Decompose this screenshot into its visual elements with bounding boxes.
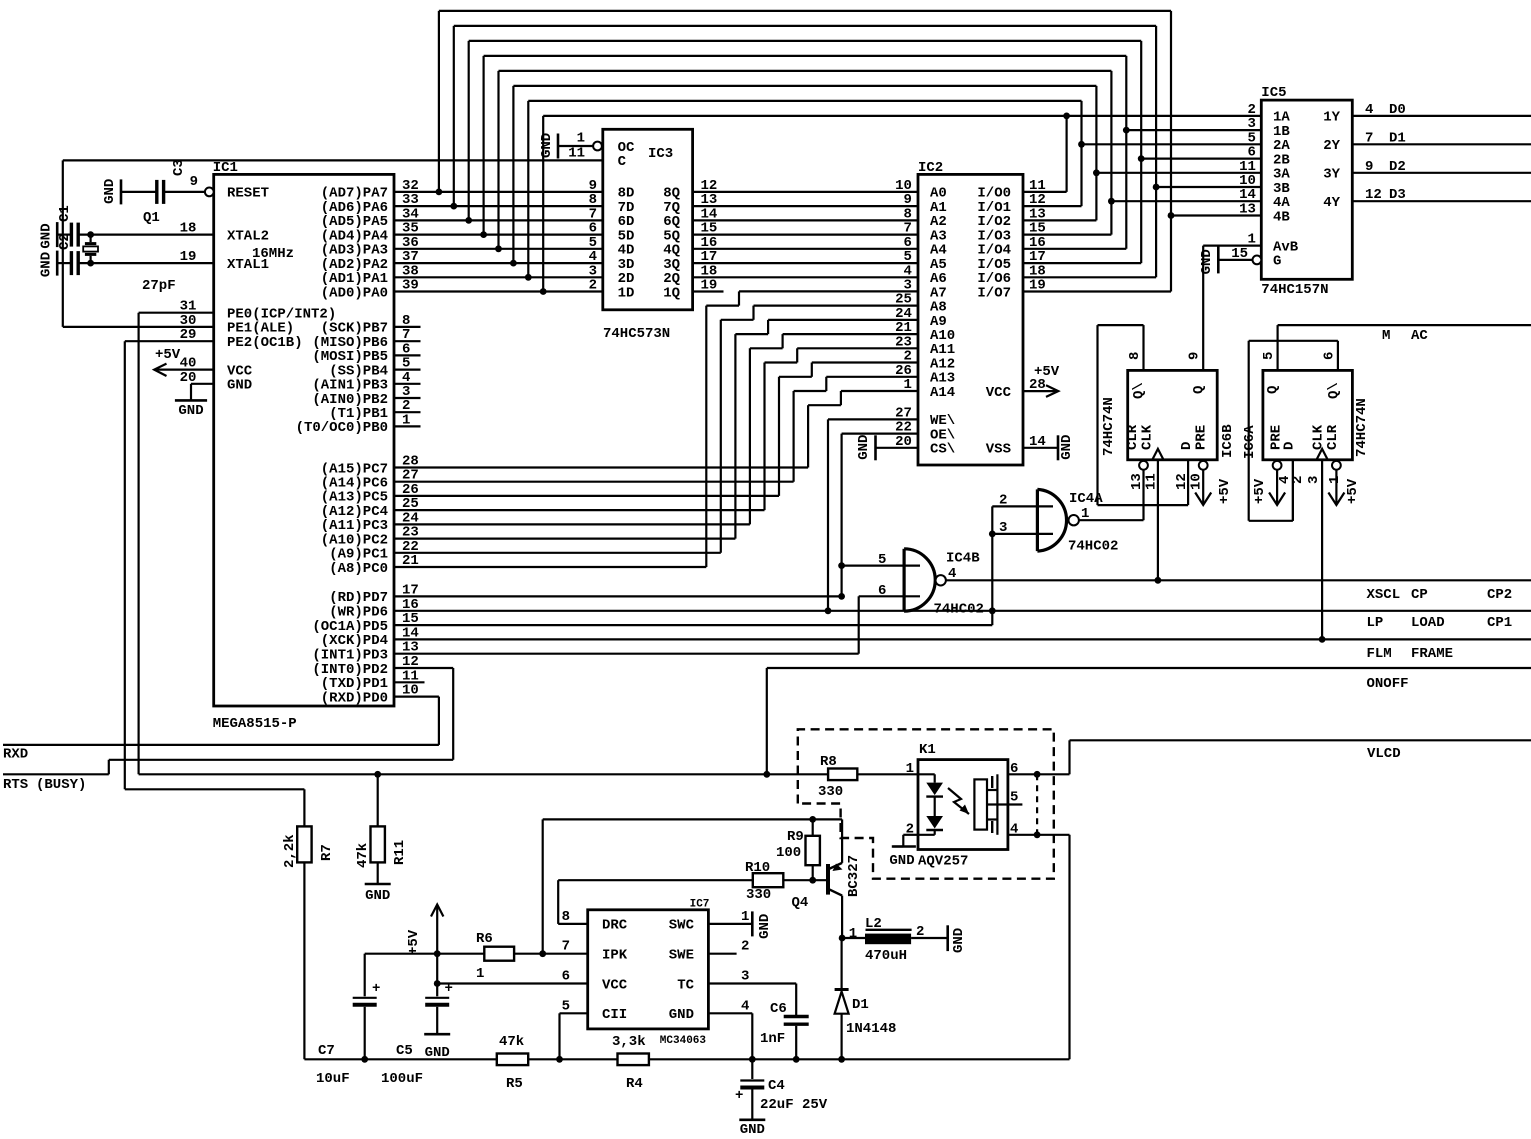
svg-text:Q: Q [1265, 386, 1281, 394]
svg-text:C7: C7 [318, 1043, 335, 1059]
svg-text:CLR: CLR [1125, 424, 1141, 450]
svg-text:D1: D1 [852, 997, 869, 1013]
svg-text:6: 6 [562, 969, 570, 985]
svg-text:9: 9 [190, 174, 198, 190]
svg-text:FRAME: FRAME [1411, 646, 1453, 662]
svg-text:12: 12 [1174, 473, 1190, 490]
svg-text:9: 9 [1365, 159, 1373, 175]
svg-text:11: 11 [1144, 473, 1160, 490]
svg-text:4: 4 [1365, 102, 1373, 118]
svg-text:SWC: SWC [669, 918, 695, 934]
svg-text:GND: GND [178, 403, 203, 419]
svg-text:1: 1 [577, 131, 585, 147]
svg-text:3Y: 3Y [1323, 167, 1340, 183]
svg-text:(T0/OC0)PB0: (T0/OC0)PB0 [296, 420, 388, 436]
svg-text:2Y: 2Y [1323, 138, 1340, 154]
svg-text:RTS: RTS [3, 777, 28, 793]
svg-text:IC5: IC5 [1261, 85, 1286, 101]
svg-text:2: 2 [916, 924, 924, 940]
svg-text:1: 1 [1081, 506, 1089, 522]
svg-text:(A8)PC0: (A8)PC0 [329, 561, 388, 577]
svg-text:5: 5 [1261, 352, 1277, 360]
svg-text:BC327: BC327 [846, 855, 862, 897]
svg-text:27pF: 27pF [142, 278, 176, 294]
svg-text:1: 1 [1247, 232, 1255, 248]
svg-text:Q1: Q1 [143, 210, 160, 226]
svg-text:8: 8 [1127, 352, 1143, 360]
svg-text:5: 5 [562, 998, 570, 1014]
svg-text:ONOFF: ONOFF [1367, 676, 1409, 692]
svg-text:R5: R5 [506, 1076, 523, 1092]
svg-text:D3: D3 [1389, 187, 1406, 203]
svg-text:330: 330 [746, 887, 771, 903]
svg-text:+5V: +5V [1252, 478, 1268, 504]
svg-text:C6: C6 [770, 1001, 787, 1017]
svg-text:SWE: SWE [669, 948, 694, 964]
svg-text:74HC02: 74HC02 [934, 602, 984, 618]
svg-text:+5V: +5V [1217, 478, 1233, 504]
svg-text:R11: R11 [392, 840, 408, 865]
svg-text:4Y: 4Y [1323, 195, 1340, 211]
svg-text:1: 1 [741, 909, 749, 925]
svg-text:A14: A14 [930, 385, 955, 401]
svg-text:CP2: CP2 [1487, 587, 1512, 603]
svg-text:5: 5 [1010, 790, 1018, 806]
svg-text:D0: D0 [1389, 102, 1406, 118]
svg-text:XTAL1: XTAL1 [227, 257, 269, 273]
svg-text:MEGA8515-P: MEGA8515-P [213, 716, 297, 732]
svg-text:VCC: VCC [602, 977, 628, 993]
svg-text:IC6A: IC6A [1242, 425, 1258, 459]
svg-text:CLK: CLK [1140, 424, 1156, 450]
svg-text:100uF: 100uF [381, 1071, 423, 1087]
svg-text:1: 1 [849, 926, 857, 942]
svg-text:M: M [1382, 328, 1390, 344]
svg-text:(BUSY): (BUSY) [36, 777, 86, 793]
svg-text:C1: C1 [57, 205, 73, 222]
svg-text:2: 2 [741, 939, 749, 955]
svg-text:D2: D2 [1389, 159, 1406, 175]
svg-text:6: 6 [878, 583, 886, 599]
svg-text:R8: R8 [820, 754, 837, 770]
svg-text:D1: D1 [1389, 130, 1406, 146]
svg-text:CLR: CLR [1325, 424, 1341, 450]
svg-text:4: 4 [741, 998, 749, 1014]
svg-text:74HC573N: 74HC573N [603, 326, 670, 342]
svg-text:GND: GND [39, 223, 55, 248]
svg-text:GND: GND [365, 888, 390, 904]
svg-text:VLCD: VLCD [1367, 746, 1401, 762]
svg-text:G: G [1273, 254, 1281, 270]
svg-text:2,2k: 2,2k [282, 834, 298, 868]
svg-text:DRC: DRC [602, 918, 628, 934]
svg-text:1: 1 [1327, 476, 1343, 484]
svg-text:XSCL: XSCL [1367, 587, 1401, 603]
svg-text:+5V: +5V [1345, 478, 1361, 504]
svg-text:22uF 25V: 22uF 25V [760, 1097, 828, 1113]
svg-text:C4: C4 [768, 1078, 785, 1094]
svg-text:19: 19 [180, 249, 197, 265]
svg-text:GND: GND [669, 1007, 694, 1023]
svg-text:2: 2 [589, 278, 597, 294]
svg-text:MC34063: MC34063 [660, 1035, 707, 1047]
svg-text:CP: CP [1411, 587, 1428, 603]
svg-text:IC2: IC2 [918, 160, 943, 176]
svg-text:12: 12 [1365, 187, 1382, 203]
svg-text:+5V: +5V [155, 347, 181, 363]
svg-text:2: 2 [999, 493, 1007, 509]
svg-text:IC7: IC7 [690, 899, 710, 911]
svg-text:4: 4 [948, 566, 956, 582]
svg-text:CII: CII [602, 1007, 627, 1023]
svg-text:D: D [1282, 442, 1298, 450]
svg-text:(AD0)PA0: (AD0)PA0 [321, 285, 388, 301]
svg-text:GND: GND [740, 1122, 765, 1138]
svg-text:GND: GND [102, 179, 118, 204]
svg-text:8: 8 [562, 909, 570, 925]
svg-text:74HC02: 74HC02 [1068, 539, 1118, 555]
svg-text:RESET: RESET [227, 186, 269, 202]
svg-text:13: 13 [1239, 202, 1256, 218]
svg-text:PRE: PRE [1194, 425, 1210, 450]
svg-text:IC6B: IC6B [1220, 424, 1236, 458]
svg-text:C3: C3 [171, 159, 187, 176]
svg-text:470uH: 470uH [865, 948, 907, 964]
svg-text:9: 9 [1187, 352, 1203, 360]
svg-text:LOAD: LOAD [1411, 615, 1445, 631]
svg-text:1N4148: 1N4148 [846, 1021, 896, 1037]
svg-text:13: 13 [1129, 473, 1145, 490]
svg-text:L2: L2 [865, 916, 882, 932]
svg-text:+: + [372, 981, 380, 997]
svg-text:3,3k: 3,3k [612, 1034, 646, 1050]
svg-text:GND: GND [951, 928, 967, 953]
svg-text:18: 18 [180, 221, 197, 237]
svg-text:GND: GND [1199, 249, 1215, 274]
svg-text:GND: GND [856, 435, 872, 460]
svg-text:AC: AC [1411, 328, 1428, 344]
svg-text:(RXD)PD0: (RXD)PD0 [321, 690, 388, 706]
svg-text:+5V: +5V [406, 929, 422, 955]
svg-text:2: 2 [1290, 476, 1306, 484]
svg-text:4B: 4B [1273, 209, 1290, 225]
svg-text:IPK: IPK [602, 948, 628, 964]
svg-text:74HC74N: 74HC74N [1101, 397, 1117, 456]
svg-text:11: 11 [568, 145, 585, 161]
svg-text:Q\: Q\ [1326, 382, 1342, 399]
svg-text:GND: GND [1059, 435, 1075, 460]
svg-text:3: 3 [741, 969, 749, 985]
svg-text:7: 7 [1365, 130, 1373, 146]
svg-text:C5: C5 [396, 1043, 413, 1059]
svg-text:6: 6 [1321, 352, 1337, 360]
svg-text:AQV257: AQV257 [918, 854, 968, 870]
svg-text:LP: LP [1367, 615, 1384, 631]
svg-text:Q4: Q4 [792, 895, 809, 911]
svg-text:5: 5 [878, 552, 886, 568]
svg-text:47k: 47k [499, 1034, 524, 1050]
svg-text:FLM: FLM [1367, 646, 1392, 662]
svg-text:IC1: IC1 [213, 160, 238, 176]
svg-text:19: 19 [1029, 278, 1046, 294]
svg-text:C: C [618, 154, 627, 170]
svg-text:74HC74N: 74HC74N [1354, 398, 1370, 457]
svg-text:RXD: RXD [3, 747, 28, 763]
svg-text:Q\: Q\ [1131, 382, 1147, 399]
svg-text:14: 14 [1029, 434, 1046, 450]
svg-text:R4: R4 [626, 1076, 643, 1092]
svg-text:R6: R6 [476, 931, 493, 947]
svg-text:1D: 1D [618, 285, 635, 301]
svg-text:CS\: CS\ [930, 442, 955, 458]
svg-text:GND: GND [539, 133, 555, 158]
svg-text:3: 3 [1306, 476, 1322, 484]
svg-text:1nF: 1nF [760, 1031, 785, 1047]
svg-text:IC4B: IC4B [946, 551, 980, 567]
svg-text:R9: R9 [787, 829, 804, 845]
svg-text:100: 100 [776, 845, 801, 861]
svg-text:10uF: 10uF [316, 1071, 350, 1087]
svg-text:3: 3 [999, 520, 1007, 536]
svg-text:GND: GND [757, 914, 773, 939]
svg-text:I/O7: I/O7 [977, 285, 1011, 301]
svg-text:74HC157N: 74HC157N [1261, 282, 1328, 298]
svg-text:Q: Q [1191, 386, 1207, 394]
svg-text:R10: R10 [745, 860, 770, 876]
svg-text:IC3: IC3 [648, 146, 673, 162]
svg-text:XTAL2: XTAL2 [227, 228, 269, 244]
svg-text:VCC: VCC [986, 385, 1012, 401]
svg-text:1Q: 1Q [663, 285, 680, 301]
svg-text:TC: TC [677, 977, 694, 993]
svg-text:+: + [735, 1088, 743, 1104]
svg-text:CP1: CP1 [1487, 615, 1512, 631]
svg-text:+5V: +5V [1034, 364, 1060, 380]
svg-text:R7: R7 [319, 844, 335, 861]
svg-text:GND: GND [227, 378, 252, 394]
svg-text:GND: GND [425, 1045, 450, 1061]
svg-text:C2: C2 [57, 233, 73, 250]
svg-text:1: 1 [476, 966, 484, 982]
svg-text:1: 1 [402, 412, 410, 428]
svg-text:VSS: VSS [986, 442, 1011, 458]
svg-text:1Y: 1Y [1323, 110, 1340, 126]
svg-text:GND: GND [39, 252, 55, 277]
svg-text:K1: K1 [919, 742, 936, 758]
svg-text:47k: 47k [355, 843, 371, 868]
svg-text:7: 7 [562, 939, 570, 955]
svg-text:330: 330 [818, 784, 843, 800]
svg-text:PE2(OC1B): PE2(OC1B) [227, 335, 303, 351]
svg-text:GND: GND [889, 853, 914, 869]
svg-text:10: 10 [1189, 473, 1205, 490]
